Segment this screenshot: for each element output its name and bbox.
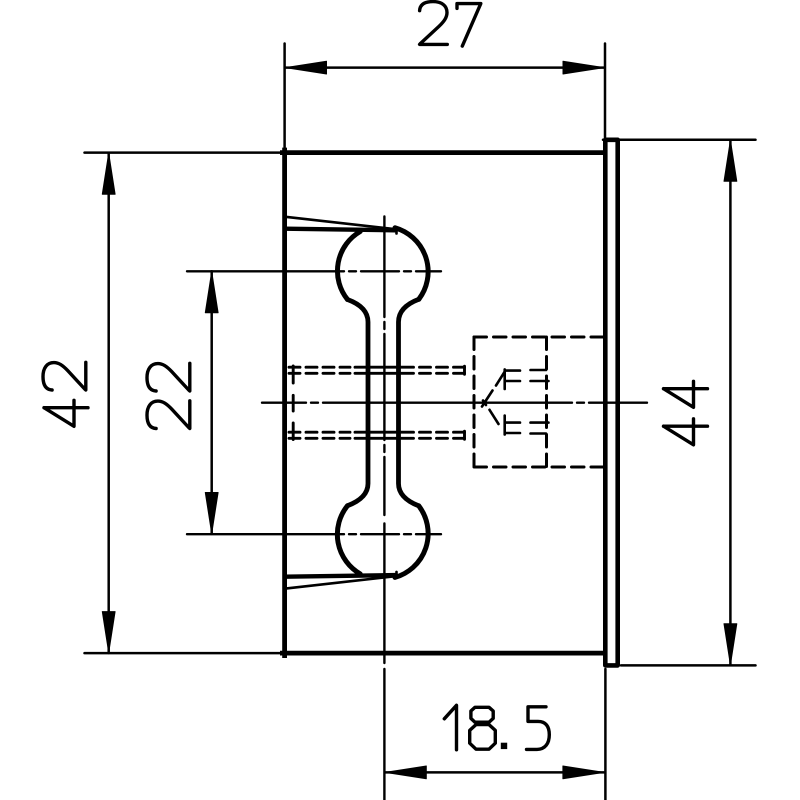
dim 18.5 line [385, 771, 605, 774]
dim 27 extension right [604, 44, 607, 138]
label 22 (rotated) [147, 363, 190, 428]
dim 18.5 arrow left [385, 766, 426, 779]
stud hole top left arc [337, 232, 360, 300]
dim 22 line [210, 271, 213, 534]
hidden screw head verticals [503, 369, 506, 434]
clip tab bottom upper edge [285, 575, 395, 577]
dim 42 line [107, 153, 110, 653]
flange strip (right edge profile) [605, 140, 617, 666]
centerline through top hole / 22 top extension [187, 270, 441, 272]
dim 27 extension left [283, 44, 286, 151]
hidden screw tip vertical [292, 366, 295, 440]
hidden line lower inner (y=432) [289, 431, 465, 434]
label 27 [420, 2, 481, 47]
dim 44 extension top [603, 138, 756, 141]
dim 42 arrow up [102, 153, 115, 194]
slot right side with fillets [399, 299, 419, 506]
hidden line upper inner (y=373) [289, 372, 465, 375]
cam housing dashed square top edge [474, 336, 604, 339]
label 18.5 [444, 705, 549, 750]
dim 44 line [729, 140, 732, 665]
cam housing dashed square mid vertical [545, 337, 548, 467]
hidden screw head horizontals lower [505, 423, 549, 434]
dim 42 arrow down [102, 612, 115, 653]
clip tab top angled edge [286, 217, 397, 234]
dim 44 arrow up [724, 140, 737, 181]
hidden screw chamfer upper diagonal [482, 372, 505, 407]
dim 27 arrow right [563, 61, 604, 74]
clip tab bottom angled edge [286, 572, 397, 589]
stud hole bottom right arc [395, 506, 428, 578]
hidden line lower outer (y=438) [289, 437, 465, 440]
hidden screw chamfer lower diagonal [483, 401, 499, 425]
centerline horizontal main axis [262, 402, 647, 404]
stud hole top right arc [395, 228, 428, 299]
cam housing dashed square bottom edge [474, 466, 604, 469]
plate outline (main body rectangle) [282, 150, 604, 656]
dim 27 arrow left [286, 61, 327, 74]
dim 42 extension top [85, 151, 284, 154]
dim 18.5 arrow right [563, 766, 604, 779]
hidden line right end connectors [463, 366, 466, 439]
dim 18.5 extension right [604, 669, 607, 800]
hidden line upper outer (y=367) [289, 366, 465, 369]
stud hole bottom left arc [337, 506, 360, 574]
hidden screw head horizontals upper [505, 370, 549, 381]
slot left side with fillets [348, 300, 369, 506]
dim 44 arrow down [724, 624, 737, 665]
clip tab top lower edge [285, 229, 395, 231]
label 42 (rotated) [43, 362, 88, 426]
dim 22 arrow up [205, 272, 218, 313]
label 44 (rotated) [664, 381, 708, 445]
dim 27 line [285, 66, 605, 69]
dim 22 arrow down [205, 493, 218, 534]
dim 44 extension bottom [621, 664, 756, 667]
centerline through bottom hole / 22 bottom extension [187, 533, 441, 535]
dim 42 extension bottom [85, 652, 284, 655]
centerline vertical through holes (also 18.5 extension) [383, 217, 385, 800]
cam housing dashed square left edge [473, 337, 476, 467]
